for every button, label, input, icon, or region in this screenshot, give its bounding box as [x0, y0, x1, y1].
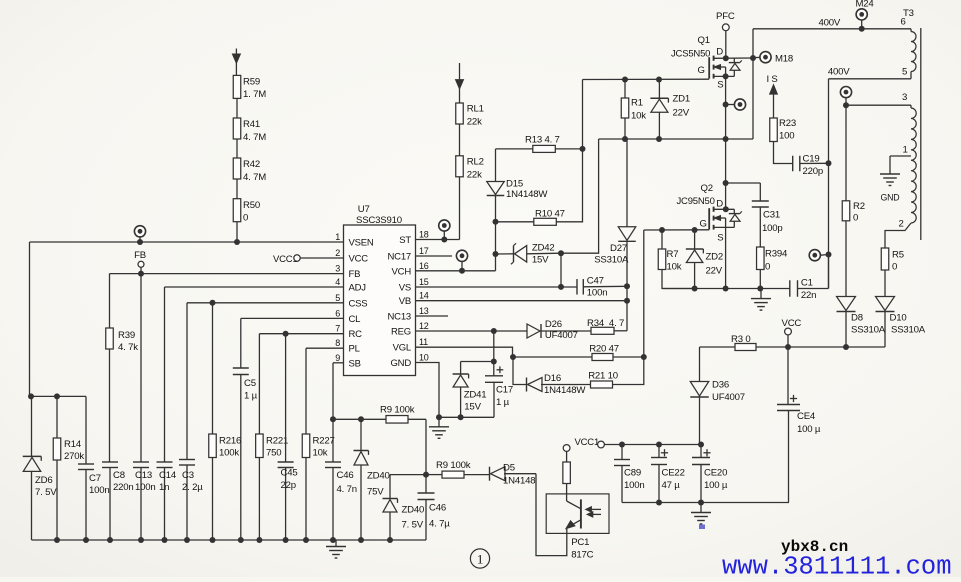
wire VSEN left drop: [29, 242, 31, 396]
svg-text:3: 3: [902, 92, 907, 103]
svg-text:M24: M24: [856, 0, 875, 10]
zener ZD6 7.5V: [31, 396, 33, 456]
svg-text:220n: 220n: [113, 482, 134, 493]
wire Q1 source: [725, 76, 727, 209]
svg-text:R9 100k: R9 100k: [380, 405, 415, 416]
svg-text:22k: 22k: [467, 170, 482, 181]
diode D16 1N4148W: [513, 357, 527, 385]
svg-text:C45: C45: [281, 468, 298, 479]
svg-text:R13 4. 7: R13 4. 7: [525, 135, 560, 146]
svg-text:2: 2: [335, 248, 340, 258]
svg-text:1 µ: 1 µ: [244, 391, 258, 402]
wire RC pin7 net: [259, 333, 343, 335]
svg-text:R221: R221: [266, 436, 288, 447]
svg-text:0: 0: [765, 262, 770, 273]
svg-text:75V: 75V: [367, 487, 384, 498]
svg-text:400V: 400V: [819, 18, 841, 29]
capacitor C14 1n: [164, 287, 166, 462]
svg-text:NC13: NC13: [388, 312, 412, 323]
svg-text:22V: 22V: [673, 108, 690, 119]
svg-text:D10: D10: [890, 313, 907, 324]
wire R41-R42: [236, 139, 238, 158]
svg-text:CE22: CE22: [662, 468, 685, 479]
wire SB to R9: [333, 418, 386, 420]
capacitor CE4 100u: [790, 398, 797, 400]
diode D27 SS310A: [626, 139, 628, 227]
svg-text:VCC1: VCC1: [575, 437, 600, 448]
capacitor C46 4.7n: [325, 461, 341, 463]
svg-text:NC17: NC17: [388, 252, 412, 263]
svg-text:100n: 100n: [587, 288, 608, 299]
resistor R34 4.7: [591, 327, 614, 334]
svg-text:PFC: PFC: [716, 11, 735, 22]
node FB test point: [138, 261, 144, 267]
wire FB pin3 net: [110, 273, 344, 275]
resistor RL1 22k: [456, 103, 464, 124]
zener ZD42 15V: [496, 253, 514, 255]
svg-text:C14: C14: [159, 470, 177, 481]
svg-text:2: 2: [899, 219, 904, 230]
resistor R50: [233, 199, 241, 222]
wire 400V pin5 rail: [829, 78, 912, 80]
resistor R1 10k: [624, 80, 626, 99]
svg-text:0: 0: [243, 213, 248, 224]
diode D10 SS310A: [884, 312, 886, 348]
zener ZD41 15V: [460, 387, 462, 418]
svg-text:C8: C8: [113, 470, 125, 481]
svg-text:7. 5V: 7. 5V: [402, 520, 424, 531]
diode Q1 body zener: [733, 58, 735, 62]
resistor R20 47: [592, 354, 613, 361]
capacitor C1 22n: [789, 280, 791, 297]
wire mid rail y139: [599, 138, 753, 140]
svg-text:S: S: [717, 233, 723, 244]
resistor R7 10k: [661, 230, 663, 249]
svg-text:R41: R41: [243, 119, 260, 130]
svg-text:D36: D36: [712, 380, 729, 391]
resistor R221 750: [258, 334, 260, 434]
wire NC13 pin13 stub: [416, 315, 448, 317]
svg-text:CSS: CSS: [349, 298, 368, 309]
svg-text:SB: SB: [349, 358, 361, 369]
svg-text:1 µ: 1 µ: [496, 397, 510, 408]
svg-text:1n: 1n: [159, 482, 169, 493]
wire node junction y396: [30, 395, 87, 397]
svg-text:GND: GND: [390, 358, 411, 369]
capacitor C8 220n: [109, 349, 111, 462]
svg-text:10k: 10k: [631, 111, 646, 122]
wire hot ground bus: [663, 288, 790, 290]
svg-text:R2: R2: [853, 201, 865, 212]
resistor optocoupler collector pull-up: [563, 445, 570, 452]
svg-text:UF4007: UF4007: [712, 392, 745, 403]
svg-text:C19: C19: [803, 154, 820, 165]
svg-text:JCS5N50: JCS5N50: [671, 49, 710, 60]
svg-text:Q1: Q1: [698, 35, 710, 46]
resistor R9 100k (first): [386, 416, 408, 424]
capacitor C19 220p: [774, 142, 793, 164]
svg-text:ZD40: ZD40: [367, 471, 390, 482]
svg-text:R1: R1: [631, 98, 643, 109]
wire RL2 to ST pin18: [459, 177, 461, 240]
svg-text:C46: C46: [337, 470, 354, 481]
wire VCC rail: [700, 346, 886, 348]
wire Q2 gate rail: [644, 229, 709, 231]
svg-text:7. 5V: 7. 5V: [35, 487, 57, 498]
diode D5 1N4148: [489, 467, 491, 481]
svg-text:4. 7µ: 4. 7µ: [429, 519, 450, 530]
ground symbol bottom bus: [335, 540, 337, 547]
capacitor CE22 47u: [661, 452, 668, 454]
svg-text:D5: D5: [503, 463, 515, 474]
wire CL pin6 net: [241, 317, 344, 319]
capacitor C31 100p: [726, 182, 761, 184]
wire Q1 drain to M18 node: [714, 57, 753, 59]
svg-text:SS310A: SS310A: [594, 255, 629, 266]
wire gnd rail y417: [439, 416, 494, 418]
wire R9 right drop: [425, 419, 427, 474]
svg-text:22p: 22p: [281, 480, 296, 491]
svg-text:R21 10: R21 10: [588, 370, 618, 381]
capacitor C7 100n: [85, 396, 87, 464]
svg-text:FB: FB: [349, 269, 361, 280]
svg-text:1: 1: [477, 552, 483, 567]
svg-text:16: 16: [419, 261, 429, 271]
wire primary-side bottom bus: [32, 539, 427, 541]
ground symbol secondary: [700, 503, 702, 513]
wire VGL pin11 net: [416, 347, 513, 357]
svg-text:R34 4. 7: R34 4. 7: [587, 318, 624, 329]
svg-text:15: 15: [419, 277, 429, 287]
wire R50 to VSEN: [236, 222, 238, 242]
svg-text:0: 0: [853, 213, 858, 224]
wire RL1-RL2: [459, 124, 461, 156]
svg-text:13: 13: [419, 306, 429, 316]
svg-text:www.3811111.com: www.3811111.com: [722, 553, 952, 578]
wire VS pin15 net: [416, 286, 577, 288]
terminal on VSEN wire: [134, 226, 145, 237]
svg-text:8: 8: [335, 338, 340, 348]
svg-text:VGL: VGL: [393, 343, 411, 354]
op-amp PC1 817C optocoupler: [546, 494, 609, 534]
svg-text:22V: 22V: [706, 266, 723, 277]
svg-text:1N4148: 1N4148: [503, 476, 535, 487]
svg-text:270k: 270k: [64, 451, 84, 462]
zener ZD40 7.5V (second): [389, 475, 391, 499]
svg-text:4. 7k: 4. 7k: [118, 342, 138, 353]
wire pin5 drop to C19/C1: [828, 79, 830, 289]
wire Q2 source: [725, 227, 727, 288]
wire Q1 drain: [725, 31, 727, 59]
svg-text:R227: R227: [313, 436, 335, 447]
wire VCC1 rail: [604, 444, 701, 446]
capacitor C89 100n: [621, 445, 623, 460]
resistor R9 100k (second): [426, 474, 442, 476]
wire VCH pin16 net: [416, 270, 496, 272]
svg-text:R23: R23: [779, 118, 796, 129]
svg-text:Q2: Q2: [701, 183, 713, 194]
svg-text:R42: R42: [243, 159, 260, 170]
svg-text:C46: C46: [429, 503, 446, 514]
wire PL pin8 net: [306, 347, 344, 349]
svg-text:1N4148W: 1N4148W: [506, 189, 548, 200]
wire SB pin9 net: [333, 362, 344, 364]
resistor R5 0: [881, 248, 889, 270]
svg-text:D27: D27: [610, 243, 627, 254]
svg-text:220p: 220p: [803, 166, 824, 177]
svg-text:D15: D15: [506, 178, 523, 189]
diode D8 SS310A: [845, 312, 847, 348]
svg-text:C7: C7: [89, 473, 101, 484]
svg-text:C31: C31: [763, 210, 780, 221]
svg-text:7: 7: [335, 324, 340, 334]
ground symbol transformer: [880, 173, 900, 175]
svg-text:R7: R7: [667, 249, 679, 260]
wire R59-R41: [236, 98, 238, 118]
svg-text:R10 47: R10 47: [535, 209, 565, 220]
svg-text:ZD40: ZD40: [402, 505, 425, 516]
capacitor C3 2.2u: [186, 303, 188, 460]
node HV input arrow (left divider): [235, 49, 237, 76]
svg-text:ST: ST: [399, 235, 411, 246]
wire D5 to optocoupler emitter: [504, 473, 536, 475]
wire NC17 pin17 stub: [416, 255, 452, 257]
wire R42-R50: [236, 179, 238, 199]
transformer core: [920, 28, 922, 240]
svg-text:R394: R394: [765, 249, 788, 260]
svg-text:RL2: RL2: [467, 157, 484, 168]
svg-text:REG: REG: [391, 327, 411, 338]
svg-text:G: G: [700, 219, 707, 230]
svg-text:17: 17: [419, 246, 429, 256]
svg-text:11: 11: [419, 337, 428, 347]
svg-text:100: 100: [779, 131, 794, 142]
svg-text:817C: 817C: [571, 550, 593, 561]
svg-text:6: 6: [335, 308, 340, 318]
capacitor C45 22p: [285, 334, 287, 462]
svg-text:G: G: [698, 65, 705, 76]
wire ZD42 to mid rail: [561, 139, 599, 253]
svg-text:D8: D8: [851, 313, 863, 324]
svg-text:FB: FB: [134, 250, 146, 261]
wire GND pin10 net: [416, 363, 439, 418]
svg-text:10k: 10k: [667, 262, 682, 273]
svg-text:3: 3: [335, 264, 340, 274]
svg-text:1. 7M: 1. 7M: [243, 89, 266, 100]
svg-text:CL: CL: [349, 314, 361, 325]
svg-text:VB: VB: [399, 296, 411, 307]
ground symbol IC: [438, 417, 440, 427]
svg-text:ZD42: ZD42: [532, 242, 555, 253]
node scan artifact blue mark: [699, 525, 705, 530]
svg-text:5: 5: [335, 293, 340, 303]
terminal on VCH: [456, 250, 467, 261]
svg-text:18: 18: [419, 230, 429, 240]
capacitor C47 100n: [576, 279, 578, 295]
svg-text:5: 5: [902, 67, 907, 78]
svg-text:SS310A: SS310A: [891, 325, 926, 336]
svg-text:400V: 400V: [828, 67, 850, 78]
svg-text:D: D: [716, 47, 723, 58]
node HV arrow (RL divider): [459, 63, 461, 103]
capacitor C13 100n: [140, 274, 142, 462]
zener ZD2 22V: [694, 230, 696, 249]
resistor R14 270k: [56, 396, 58, 438]
svg-text:VS: VS: [399, 283, 411, 294]
svg-text:R5: R5: [892, 250, 904, 261]
svg-text:I S: I S: [767, 74, 778, 85]
wire CSS pin5 net: [187, 302, 344, 304]
svg-text:4. 7n: 4. 7n: [337, 484, 357, 495]
terminal M18: [753, 56, 760, 58]
terminal near C1: [809, 250, 820, 261]
svg-text:ZD41: ZD41: [464, 390, 487, 401]
resistor R2 0: [842, 201, 850, 221]
svg-text:1N4148W: 1N4148W: [544, 385, 586, 396]
resistor R59: [233, 75, 241, 98]
svg-text:4: 4: [335, 277, 340, 287]
svg-text:9: 9: [335, 353, 340, 363]
svg-text:100k: 100k: [219, 448, 239, 459]
terminal above R2: [840, 87, 851, 98]
svg-text:R50: R50: [243, 200, 260, 211]
svg-text:4. 7M: 4. 7M: [243, 172, 266, 183]
resistor R13 4.7: [496, 148, 533, 150]
node circled 1 page marker: [470, 549, 489, 568]
resistor R216 100k: [212, 303, 214, 434]
svg-text:D: D: [716, 198, 723, 209]
svg-text:C47: C47: [587, 275, 604, 286]
svg-text:M18: M18: [775, 54, 793, 65]
svg-text:100 µ: 100 µ: [797, 424, 821, 435]
resistor R42: [233, 158, 241, 179]
wire VB pin14 net: [416, 300, 627, 302]
svg-text:D26: D26: [545, 319, 562, 330]
resistor R39 4.7k: [109, 274, 111, 328]
wire D27 column: [626, 242, 628, 331]
zener ZD40 75V: [360, 419, 362, 450]
svg-text:0: 0: [892, 262, 897, 273]
svg-text:JC95N50: JC95N50: [677, 196, 715, 207]
diode D15 1N4148W: [495, 149, 497, 182]
svg-text:RL1: RL1: [467, 104, 484, 115]
svg-text:C5: C5: [244, 378, 256, 389]
svg-text:D16: D16: [544, 373, 561, 384]
wire Q1 gate rail: [583, 78, 710, 80]
svg-text:R39: R39: [118, 330, 135, 341]
diode D36 UF4007: [699, 347, 701, 382]
svg-text:VCH: VCH: [392, 266, 412, 277]
svg-text:22k: 22k: [467, 117, 482, 128]
resistor R23 100: [770, 118, 778, 142]
wire Q2 gate drop: [643, 230, 645, 357]
op-amp U7 SSC3S910 controller IC: [344, 225, 416, 376]
svg-text:RC: RC: [349, 329, 363, 340]
svg-text:VSEN: VSEN: [349, 238, 374, 249]
capacitor C46 4.7u (second): [425, 475, 427, 493]
wire R13 to gate rail: [582, 80, 584, 149]
capacitor CE20 100u: [703, 452, 710, 454]
svg-text:15V: 15V: [464, 402, 481, 413]
wire 400V drop x753: [752, 29, 754, 139]
resistor R394 0: [759, 207, 761, 247]
capacitor C5 1u: [240, 318, 242, 368]
svg-text:SSC3S910: SSC3S910: [356, 215, 402, 226]
resistor RL2 22k: [456, 156, 464, 177]
resistor R227 10k: [305, 348, 307, 434]
wire node R9 junction: [390, 474, 426, 476]
svg-text:S: S: [717, 79, 723, 90]
capacitor C17 1u: [493, 331, 495, 376]
svg-text:47 µ: 47 µ: [662, 480, 681, 491]
svg-text:100 µ: 100 µ: [704, 480, 728, 491]
svg-text:C1: C1: [801, 278, 813, 289]
svg-text:100n: 100n: [135, 482, 156, 493]
svg-text:C3: C3: [182, 470, 194, 481]
svg-text:4. 7M: 4. 7M: [243, 132, 266, 143]
svg-text:R14: R14: [64, 439, 82, 450]
svg-text:100n: 100n: [89, 485, 110, 496]
svg-text:ZD2: ZD2: [706, 252, 724, 263]
svg-text:ADJ: ADJ: [349, 283, 367, 294]
svg-text:R216: R216: [219, 436, 241, 447]
svg-text:ZD6: ZD6: [35, 475, 53, 486]
svg-text:2. 2µ: 2. 2µ: [182, 482, 203, 493]
wire REG pin12 net: [416, 330, 527, 332]
svg-text:14: 14: [419, 291, 429, 301]
wire ADJ pin4 net: [165, 286, 344, 288]
svg-text:C17: C17: [496, 385, 513, 396]
diode Q2 body zener: [733, 209, 735, 213]
svg-text:R3 0: R3 0: [731, 334, 750, 345]
svg-text:22n: 22n: [801, 290, 816, 301]
terminal on ST: [439, 220, 450, 231]
wire ZD42 branch to VS: [560, 253, 562, 287]
svg-text:12: 12: [419, 321, 429, 331]
svg-text:ZD1: ZD1: [673, 94, 691, 105]
diode D26 UF4007: [527, 324, 540, 338]
svg-text:R59: R59: [243, 77, 260, 88]
svg-text:6: 6: [901, 17, 906, 28]
svg-text:PL: PL: [349, 344, 360, 355]
svg-text:CE4: CE4: [797, 411, 816, 422]
ground symbol hot: [760, 289, 762, 299]
svg-text:VCC: VCC: [349, 254, 369, 265]
svg-text:15V: 15V: [532, 254, 549, 265]
zener ZD1 22V: [658, 80, 660, 99]
svg-text:SS310A: SS310A: [851, 325, 886, 336]
svg-text:C89: C89: [624, 468, 641, 479]
wire 400V top rail: [753, 28, 911, 30]
resistor R41: [233, 118, 241, 139]
svg-text:VCC: VCC: [782, 318, 802, 329]
svg-text:1: 1: [903, 145, 908, 156]
svg-text:PC1: PC1: [571, 537, 589, 548]
svg-text:C13: C13: [135, 470, 152, 481]
svg-text:10: 10: [419, 353, 429, 363]
svg-text:100p: 100p: [762, 223, 783, 234]
svg-text:CE20: CE20: [704, 468, 727, 479]
svg-text:R9 100k: R9 100k: [436, 460, 471, 471]
resistor R21 10: [591, 381, 613, 388]
svg-text:10k: 10k: [313, 448, 328, 459]
svg-text:R20 47: R20 47: [589, 344, 619, 355]
wire secondary ground bus: [622, 502, 789, 504]
resistor R10 47: [496, 221, 534, 223]
svg-text:GND: GND: [881, 193, 900, 203]
terminal Q1 source: [726, 104, 735, 106]
svg-text:750: 750: [266, 448, 281, 459]
